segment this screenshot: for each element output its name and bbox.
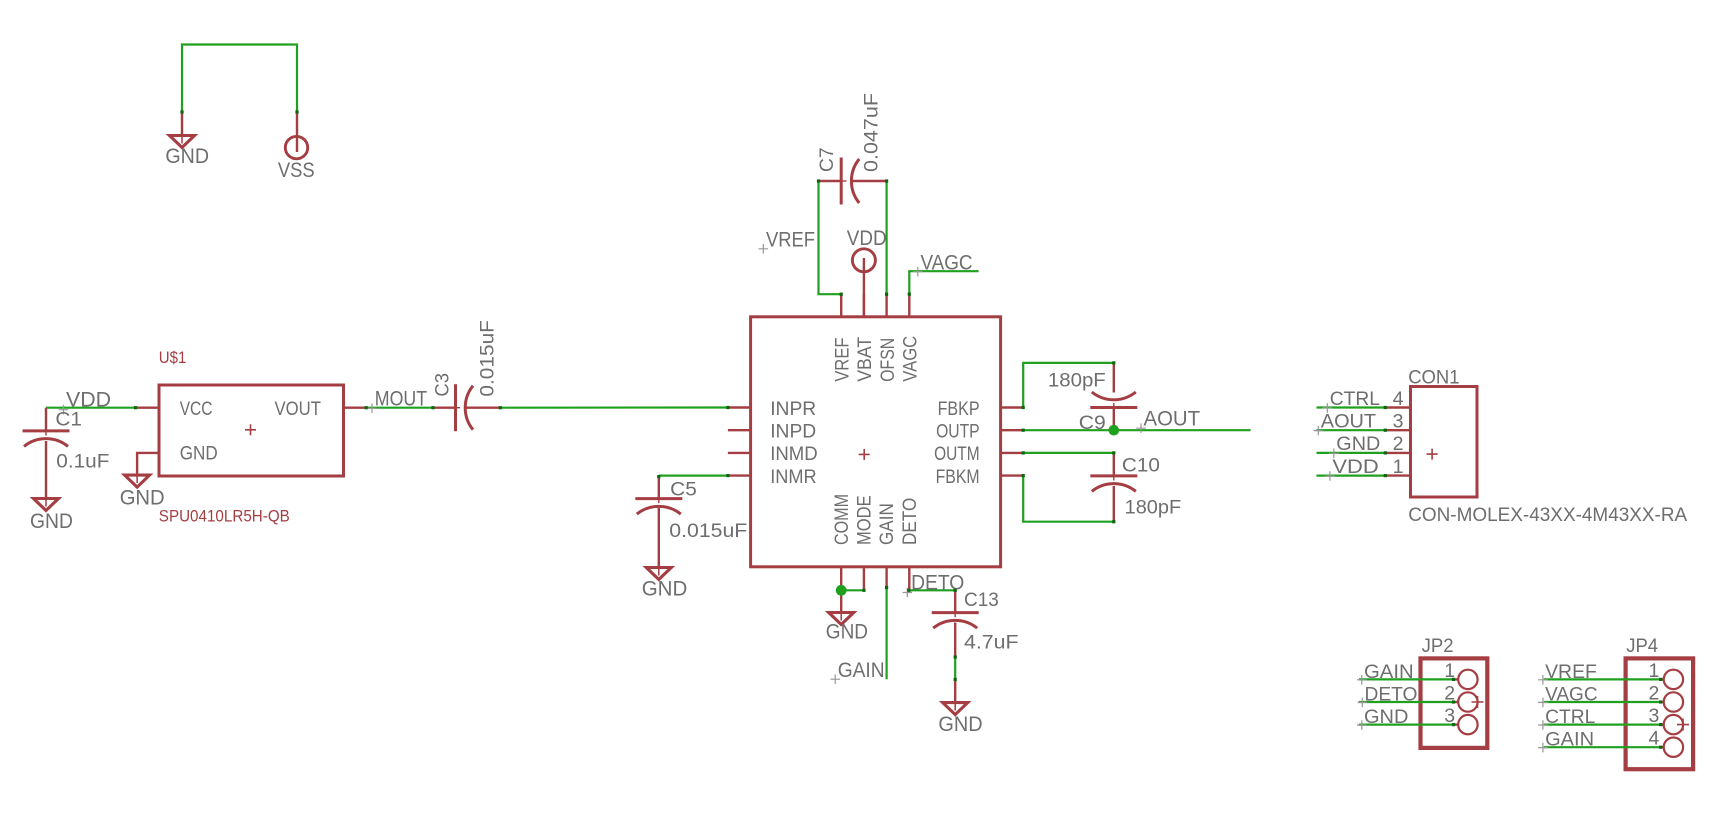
wire U$1 GND pin to ground (137, 453, 159, 475)
capacitor C10 value 180pF (1125, 496, 1182, 518)
capacitor C9 top pin (1113, 363, 1115, 393)
svg-text:GND: GND (938, 713, 982, 736)
connector CON1 pin 4 stub (1385, 406, 1410, 408)
capacitor C5 top pin (658, 476, 660, 499)
jumper JP2 name (1422, 635, 1454, 657)
IC FBKP pin stub (1001, 406, 1024, 408)
connector CON1 origin cross (1427, 449, 1438, 460)
wire C5 to INMR (659, 475, 728, 477)
jumper JP2 pin 2 circle (1458, 692, 1477, 711)
svg-text:VAGC: VAGC (900, 336, 922, 382)
svg-text:180pF: 180pF (1048, 370, 1106, 392)
capacitor C13 name (964, 589, 999, 611)
IC OUTM pin stub (1001, 452, 1024, 454)
net label GND at CON1 cross (1329, 449, 1339, 459)
jumper JP2 pin number 1 (1444, 660, 1455, 682)
ground GND under COMM symbol (829, 613, 854, 625)
wire net CTRL to JP4 pin 3 (1544, 723, 1661, 725)
svg-text:FBKM: FBKM (936, 466, 980, 488)
wire net DETO (908, 589, 956, 591)
capacitor C9 name (1079, 412, 1106, 434)
svg-text:0.047uF: 0.047uF (861, 93, 883, 172)
jumper JP2 pin 1 stub (1454, 678, 1459, 680)
svg-text:GND: GND (1364, 706, 1408, 728)
wire MODE to junction (841, 589, 864, 591)
capacitor C1 bottom pin (45, 441, 47, 499)
svg-text:GND: GND (30, 510, 73, 533)
svg-text:DETO: DETO (899, 498, 921, 545)
svg-text:3: 3 (1649, 705, 1660, 727)
IC top pin stub VREF (840, 294, 842, 317)
IC pin name FBKM (936, 466, 980, 488)
wire C13 to ground (954, 657, 956, 680)
net label CTRL at CON1 (1330, 388, 1380, 410)
ground GND under C1 label (30, 510, 73, 533)
capacitor C10 name (1122, 454, 1160, 476)
svg-text:C1: C1 (55, 409, 82, 431)
IC FBKM pin stub (1001, 474, 1024, 476)
wire net GAIN to JP2 pin 1 (1359, 678, 1454, 680)
IC bottom pin stub GAIN (885, 567, 887, 590)
connector CON1 pin number 3 (1393, 411, 1404, 433)
svg-text:INPR: INPR (770, 398, 816, 420)
ground GND under C13 symbol (943, 703, 968, 715)
amplifier IC body (751, 317, 1001, 567)
capacitor C3 left pin (433, 407, 457, 409)
capacitor C1 top pin (45, 408, 47, 431)
amplifier IC origin cross (859, 449, 870, 460)
svg-text:JP4: JP4 (1626, 635, 1658, 657)
svg-text:GAIN: GAIN (1364, 661, 1414, 683)
mic U$1 value SPU0410LR5H-QB (159, 507, 290, 525)
svg-text:OUTM: OUTM (934, 443, 980, 465)
svg-text:0.015uF: 0.015uF (669, 520, 747, 542)
connector CON1 name (1408, 366, 1459, 388)
wire net GND to JP2 pin 3 (1359, 723, 1454, 725)
net label VREF at JP4 (1545, 661, 1597, 683)
jumper JP2 pin number 2 (1444, 683, 1455, 705)
svg-text:VCC: VCC (180, 398, 213, 420)
net label VDD left (66, 389, 111, 412)
net label CTRL at JP4 (1545, 706, 1595, 728)
svg-text:DETO: DETO (1365, 684, 1418, 706)
wire VREF pin to C7 (819, 181, 842, 294)
wire MOUT cap to INPR (500, 406, 728, 408)
IC top pin stub OFSN (885, 294, 887, 317)
svg-text:FBKP: FBKP (938, 398, 980, 420)
IC pin name COMM (831, 494, 853, 545)
mic U$1 name (159, 349, 187, 367)
svg-text:C5: C5 (670, 479, 697, 501)
net label MOUT cross (367, 403, 377, 413)
svg-text:1: 1 (1649, 660, 1660, 682)
svg-text:VAGC: VAGC (1545, 684, 1598, 706)
capacitor C1 value 0.1uF (56, 450, 109, 472)
capacitor C9 value 180pF (1048, 370, 1106, 392)
svg-text:C3: C3 (432, 373, 454, 397)
svg-text:0.015uF: 0.015uF (477, 320, 499, 397)
svg-text:3: 3 (1393, 411, 1404, 433)
wire net VSS top-left (182, 45, 297, 113)
jumper JP4 pin number 1 (1649, 660, 1660, 682)
svg-text:CON-MOLEX-43XX-4M43XX-RA: CON-MOLEX-43XX-4M43XX-RA (1408, 504, 1687, 526)
mic U$1 pin name VCC (180, 398, 213, 420)
svg-text:U$1: U$1 (159, 349, 187, 367)
svg-text:4: 4 (1393, 388, 1404, 410)
IC top pin stub VAGC (908, 294, 910, 317)
connector CON1 pin number 1 (1393, 456, 1404, 478)
jumper JP2 pin 2 origin cross (1472, 696, 1484, 708)
junction node AOUT (1109, 425, 1120, 436)
capacitor C7 plates (841, 158, 859, 205)
svg-text:VREF: VREF (1545, 661, 1597, 683)
capacitor C3 right pin (465, 407, 501, 409)
IC INPD pin stub (728, 429, 751, 431)
IC pin name INMR (770, 466, 817, 488)
svg-text:VDD: VDD (847, 227, 887, 250)
wire net GAIN (885, 587, 887, 679)
svg-text:INMD: INMD (770, 443, 818, 465)
jumper JP2 pin 2 stub (1454, 701, 1459, 703)
capacitor C13 plates (932, 613, 979, 629)
jumper JP2 pin 1 circle (1458, 670, 1477, 689)
capacitor C13 value 4.7uF (964, 632, 1019, 654)
mic U$1 VOUT pin stub (344, 407, 367, 409)
IC pin name FBKP (938, 398, 980, 420)
capacitor C5 bottom pin (658, 508, 660, 568)
svg-text:INPD: INPD (770, 421, 816, 443)
capacitor C7 name (816, 148, 838, 173)
wire net AOUT to CON1 pin 3 (1317, 429, 1386, 431)
net label DETO at JP2 (1365, 684, 1418, 706)
IC pin name OUTM (934, 443, 980, 465)
jumper JP4 pin 3 origin cross (1677, 719, 1689, 731)
IC top pin stub VBAT (863, 294, 865, 317)
svg-text:OFSN: OFSN (877, 338, 899, 382)
jumper JP4 pin 1 circle (1664, 670, 1683, 689)
net label VDD left cross (59, 405, 69, 415)
svg-text:GND: GND (642, 577, 688, 600)
jumper JP2 body (1421, 658, 1488, 748)
connector CON1 pin 3 stub (1385, 429, 1410, 431)
svg-text:VSS: VSS (278, 159, 315, 182)
jumper JP4 pin number 3 (1649, 705, 1660, 727)
ground GND under C5 label (642, 577, 688, 600)
net label GAIN at JP4 cross (1538, 743, 1548, 753)
wire net VDD to CON1 pin 1 (1317, 475, 1386, 477)
jumper JP4 pin 2 stub (1661, 701, 1664, 703)
svg-text:AOUT: AOUT (1321, 411, 1376, 433)
net label GAIN at JP2 (1364, 661, 1414, 683)
svg-text:1: 1 (1393, 456, 1404, 478)
connector CON1 pin number 2 (1393, 433, 1404, 455)
svg-text:GAIN: GAIN (876, 503, 898, 545)
wire net DETO to JP2 pin 2 (1359, 701, 1454, 703)
capacitor C5 value 0.015uF (669, 520, 747, 542)
net label VDD at CON1 (1332, 456, 1378, 478)
capacitor C7 value 0.047uF (861, 93, 883, 172)
svg-text:CTRL: CTRL (1545, 706, 1595, 728)
ground GND top-left pin (181, 112, 183, 136)
svg-text:VREF: VREF (831, 337, 853, 381)
svg-text:JP2: JP2 (1422, 635, 1454, 657)
jumper JP4 pin 1 stub (1661, 678, 1664, 680)
capacitor C10 bottom pin (1113, 486, 1115, 522)
svg-text:4.7uF: 4.7uF (964, 632, 1019, 654)
ground GND top-left symbol (170, 136, 195, 148)
svg-text:GAIN: GAIN (1545, 729, 1594, 751)
svg-text:GAIN: GAIN (838, 659, 885, 682)
svg-text:VOUT: VOUT (275, 398, 322, 420)
net label CTRL at CON1 cross (1323, 403, 1333, 413)
wire net AOUT (1023, 429, 1250, 431)
IC bottom pin stub DETO (908, 567, 910, 590)
IC pin name OUTP (936, 421, 980, 443)
net label GAIN at JP4 (1545, 729, 1594, 751)
net label GAIN at JP2 cross (1357, 675, 1367, 685)
IC pin name VBAT (854, 337, 876, 382)
IC INMD pin stub (728, 452, 751, 454)
mic U$1 pin name GND (180, 443, 218, 465)
supply VSS label (278, 159, 315, 182)
supply VDD label (847, 227, 887, 250)
svg-text:C13: C13 (964, 589, 999, 611)
IC pin name INPR (770, 398, 816, 420)
net label CTRL at JP4 cross (1538, 720, 1548, 730)
svg-text:GND: GND (180, 443, 218, 465)
net label VAGC at JP4 (1545, 684, 1598, 706)
svg-text:GND: GND (120, 486, 165, 509)
mic U$1 body (159, 385, 344, 476)
junction node COMM-MODE (836, 585, 847, 596)
net label VREF cross (759, 244, 769, 254)
IC pin name MODE (854, 495, 876, 545)
jumper JP4 pin 2 circle (1664, 692, 1683, 711)
jumper JP4 pin 4 circle (1664, 738, 1683, 757)
capacitor C10 plates (1090, 476, 1137, 492)
connector CON1 pin 2 stub (1385, 452, 1410, 454)
ground GND under C1 symbol (34, 499, 59, 511)
svg-text:AOUT: AOUT (1144, 408, 1201, 431)
IC pin name GAIN (876, 503, 898, 545)
mic U$1 pin name VOUT (275, 398, 322, 420)
net label DETO (911, 571, 964, 594)
net label VAGC at JP4 cross (1538, 698, 1548, 708)
capacitor C3 value 0.015uF (477, 320, 499, 397)
jumper JP2 pin 3 stub (1454, 723, 1459, 725)
capacitor C3 name (432, 373, 454, 397)
svg-text:VDD: VDD (1332, 456, 1378, 478)
capacitor C5 plates (635, 499, 682, 514)
wire net MOUT (366, 407, 433, 409)
svg-text:VREF: VREF (766, 229, 815, 252)
svg-text:GND: GND (165, 145, 209, 168)
capacitor C9 plates (1090, 392, 1137, 408)
capacitor C5 name (670, 479, 697, 501)
net label VREF at JP4 cross (1538, 675, 1548, 685)
net label AOUT at CON1 (1321, 411, 1376, 433)
svg-text:COMM: COMM (831, 494, 853, 545)
supply VDD pin line (863, 258, 865, 317)
wire net VREF to JP4 pin 1 (1544, 678, 1661, 680)
ground GND under C13 label (938, 713, 982, 736)
wire net CTRL to CON1 pin 4 (1317, 406, 1386, 408)
wire net GAIN to JP4 pin 4 (1544, 746, 1661, 748)
IC OUTP pin stub (1001, 429, 1024, 431)
wire FBKM to C10 (1023, 476, 1114, 522)
jumper JP4 pin 3 stub (1661, 723, 1664, 725)
wire COMM to ground (840, 589, 842, 612)
connector CON1 value CON-MOLEX-43XX-4M43XX-RA (1408, 504, 1687, 526)
capacitor C10 top pin (1113, 453, 1115, 476)
IC pin name INMD (770, 443, 818, 465)
jumper JP4 pin 3 circle (1664, 715, 1683, 734)
svg-text:MOUT: MOUT (375, 387, 427, 410)
net label GAIN cross (830, 674, 840, 684)
capacitor C13 bottom pin (954, 623, 956, 658)
net label VAGC (921, 251, 973, 274)
svg-text:INMR: INMR (770, 466, 817, 488)
IC bottom pin stub MODE (863, 567, 865, 590)
svg-text:4: 4 (1649, 728, 1660, 750)
IC bottom pin stub COMM (840, 567, 842, 590)
ground GND under U$1 label (120, 486, 165, 509)
wire net VAGC (909, 271, 978, 294)
net label GND at JP2 cross (1357, 720, 1367, 730)
net label DETO cross (903, 588, 913, 598)
ground GND under COMM label (826, 621, 868, 644)
capacitor C9 bottom pin (1113, 408, 1115, 431)
svg-text:C7: C7 (816, 148, 838, 173)
svg-text:2: 2 (1393, 433, 1404, 455)
jumper JP4 body (1626, 658, 1694, 769)
wire OUTM to C10 (1023, 452, 1114, 454)
svg-text:2: 2 (1649, 683, 1660, 705)
mic U$1 VCC pin stub (136, 407, 160, 409)
IC pin name OFSN (877, 338, 899, 382)
net label VREF (766, 229, 815, 252)
wire FBKP to C9 (1023, 363, 1114, 408)
svg-text:SPU0410LR5H-QB: SPU0410LR5H-QB (159, 507, 290, 525)
IC pin name VAGC (900, 336, 922, 382)
jumper JP4 name (1626, 635, 1658, 657)
capacitor C7 left pin (819, 180, 842, 182)
net label GAIN (838, 659, 885, 682)
ground GND under C5 symbol (646, 568, 671, 580)
svg-text:MODE: MODE (854, 495, 876, 545)
net label VDD at CON1 cross (1325, 471, 1335, 481)
connector CON1 pin number 4 (1393, 388, 1404, 410)
svg-text:VBAT: VBAT (854, 337, 876, 382)
supply VSS circle (285, 136, 307, 158)
wire junction connection dots (134, 406, 137, 409)
svg-text:GND: GND (1336, 433, 1380, 455)
wire C7 to OFSN (885, 181, 887, 294)
svg-text:C10: C10 (1122, 454, 1160, 476)
jumper JP2 pin 3 circle (1458, 715, 1477, 734)
svg-text:GND: GND (826, 621, 868, 644)
wire net VAGC to JP4 pin 2 (1544, 701, 1661, 703)
svg-text:OUTP: OUTP (936, 421, 980, 443)
net label GND at JP2 (1364, 706, 1408, 728)
IC pin name DETO (899, 498, 921, 545)
net label AOUT cross (1136, 423, 1146, 433)
jumper JP4 pin number 2 (1649, 683, 1660, 705)
connector CON1 body (1411, 387, 1478, 498)
svg-text:0.1uF: 0.1uF (56, 450, 109, 472)
capacitor C7 plate tick (841, 180, 846, 182)
IC INMR pin stub (728, 474, 751, 476)
capacitor C1 plates (23, 431, 70, 447)
jumper JP4 pin 4 stub (1661, 746, 1664, 748)
wire net VDD to U$1 (46, 407, 136, 409)
ground GND under U$1 symbol (125, 475, 150, 487)
capacitor C13 top pin (954, 590, 956, 612)
svg-text:CTRL: CTRL (1330, 388, 1380, 410)
jumper JP4 pin number 4 (1649, 728, 1660, 750)
capacitor C7 right pin (852, 180, 887, 182)
jumper JP2 pin number 3 (1444, 705, 1455, 727)
net label DETO at JP2 cross (1358, 698, 1368, 708)
connector CON1 pin 1 stub (1385, 474, 1410, 476)
net label MOUT (375, 387, 427, 410)
net label VAGC cross (913, 267, 923, 277)
mic U$1 origin cross (245, 424, 256, 435)
capacitor C3 plates (456, 384, 474, 431)
net label AOUT at CON1 cross (1314, 426, 1324, 436)
ground GND under C13 pin (954, 680, 956, 703)
ground GND top-left label (165, 145, 209, 168)
net label GND at CON1 (1336, 433, 1380, 455)
svg-text:180pF: 180pF (1125, 496, 1182, 518)
supply VSS pin (296, 112, 298, 152)
capacitor C1 name (55, 409, 82, 431)
IC INPR pin stub (728, 406, 751, 408)
net label AOUT (1144, 408, 1201, 431)
IC pin name INPD (770, 421, 816, 443)
IC pin name VREF (831, 337, 853, 381)
supply VDD circle (852, 249, 875, 272)
svg-text:VAGC: VAGC (921, 251, 973, 274)
wire net GND to CON1 pin 2 (1317, 452, 1386, 454)
